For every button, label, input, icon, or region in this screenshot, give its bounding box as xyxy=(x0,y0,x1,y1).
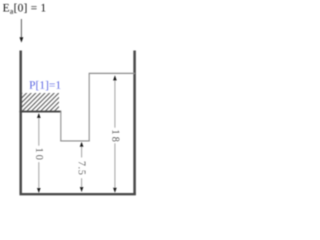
dimension 10: top arrowhead xyxy=(37,113,41,118)
dimension 7.5: bottom arrowhead xyxy=(80,187,84,192)
step profile: well bottom xyxy=(60,140,89,142)
dimension 10: bottom arrowhead xyxy=(37,188,41,193)
label P[1]=1 xyxy=(29,81,60,91)
dimension 10: stem xyxy=(35,114,44,192)
dimension 7.5: top arrowhead xyxy=(80,142,84,147)
dimension 18: stem xyxy=(111,76,120,192)
step profile: right ledge xyxy=(89,72,135,74)
step profile: left step down xyxy=(60,111,62,141)
ledge line under hatch xyxy=(19,111,61,113)
dimension 7.5: stem xyxy=(77,143,86,192)
step profile: right step up xyxy=(88,73,90,141)
dimension 18: top arrowhead xyxy=(113,75,117,80)
dimension 10: label xyxy=(36,148,43,159)
hatched block (packet at level 1) xyxy=(22,93,59,111)
label Ea[0] = 1 xyxy=(3,4,46,14)
dimension 18: label xyxy=(112,130,119,141)
left wall xyxy=(19,51,22,196)
dimension 7.5: label xyxy=(78,161,85,174)
right wall xyxy=(133,51,136,196)
input arrow (arrival) xyxy=(20,19,24,43)
container bottom xyxy=(20,193,136,195)
dimension 18: bottom arrowhead xyxy=(113,188,117,193)
